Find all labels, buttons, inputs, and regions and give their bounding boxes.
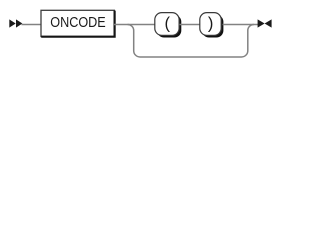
svg-text:(: ( [165, 14, 171, 33]
terminal box ) [200, 13, 224, 38]
wire ) to end [223, 24, 259, 26]
wire start to ONCODE box [22, 24, 42, 26]
svg-text:ONCODE: ONCODE [50, 15, 106, 31]
bypass wire (optional skip path) [128, 24, 254, 57]
wire ONCODE to ( box [114, 24, 156, 26]
wire ( to ) [180, 24, 201, 26]
background [0, 0, 279, 68]
keyword box ONCODE [41, 10, 115, 36]
end symbol (bowtie) [258, 19, 272, 27]
svg-text:): ) [208, 14, 214, 33]
start arrows [9, 19, 22, 27]
terminal box ( [155, 13, 182, 38]
